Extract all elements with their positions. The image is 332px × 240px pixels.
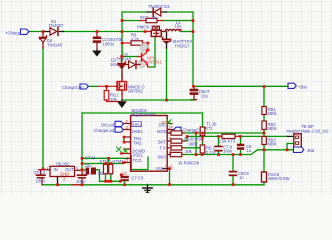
- wire header pin2: [287, 144, 294, 150]
- junction J2 at (97,32): [96, 30, 99, 33]
- svg-text:680k: 680k: [268, 141, 278, 146]
- capacitor CTM polarized: [86, 168, 89, 175]
- junction J7 at (148,50): [147, 49, 150, 52]
- ground at IC bottom: [147, 185, 149, 192]
- wire +Bat y=86.3: [194, 85, 289, 87]
- wire top loop y=12: [122, 11, 193, 13]
- junction J49 at (106,164): [104, 162, 107, 165]
- svg-text:T 9: T 9: [160, 146, 167, 151]
- IC bottom pin VSS: [163, 168, 170, 170]
- junction J47 at (58,185): [56, 183, 59, 186]
- IC left pin DSEL: [124, 129, 131, 131]
- svg-text:VSS: VSS: [156, 166, 165, 171]
- wire TCO y=158.3: [82, 157, 128, 159]
- junction J42 at (121,181): [119, 180, 122, 183]
- svg-text:HR1: HR1: [133, 122, 142, 127]
- IC right pin MOD 14: [167, 129, 173, 131]
- ground under NMOS: [121, 100, 123, 102]
- diode D3: [147, 11, 167, 13]
- svg-text:10u: 10u: [85, 163, 93, 168]
- svg-text:C7 C3: C7 C3: [132, 176, 145, 181]
- svg-text:1n: 1n: [239, 175, 244, 180]
- resistor RTM1: [104, 165, 108, 174]
- wire KTM tops tie W3: [82, 163, 124, 165]
- resistor RB3: [262, 137, 266, 145]
- resistor row B 360k: [171, 139, 182, 143]
- wire RB chain x=264: [263, 86, 265, 150]
- junction J27 at (187,136): [186, 135, 189, 138]
- IC left pin TM1: [124, 136, 131, 138]
- connector TB header: [287, 135, 294, 137]
- ghost marker B: [137, 59, 146, 68]
- svg-text:1000u: 1000u: [103, 42, 115, 47]
- svg-text:11: 11: [125, 158, 130, 163]
- svg-text:20k: 20k: [185, 149, 193, 154]
- junction J12 at (194,86): [192, 85, 195, 88]
- port ChargeCon: [80, 84, 88, 89]
- junction J16 at (82,158): [81, 157, 84, 160]
- junction J14 at (167,100): [165, 99, 168, 102]
- wire regulator feed x=43: [42, 48, 44, 169]
- wire C8 x=240.5: [240, 136, 242, 154]
- wire row C to R52: [184, 147, 201, 149]
- regulator GND stub: [57, 177, 59, 185]
- junction J36 at (287,150): [286, 149, 289, 152]
- svg-text:10u: 10u: [201, 93, 209, 98]
- wire main +charge rail y=31.5: [29, 31, 146, 33]
- ground under CC04: [96, 49, 98, 52]
- svg-text:RC2: RC2: [140, 15, 149, 20]
- capacitor C2: [121, 176, 129, 178]
- wire vertical bus x=122: [121, 12, 123, 61]
- junction J20 at (122,154): [120, 152, 123, 155]
- capacitor CBAT: [190, 89, 199, 92]
- svg-text:ChargeCon: ChargeCon: [62, 85, 84, 90]
- wire NPN base y=56.5: [122, 56, 138, 58]
- IC left pin DCMD: [124, 148, 131, 150]
- no-connect X on DCMD: [117, 147, 122, 152]
- junction J9 at (122,43): [121, 42, 124, 45]
- junction J33 at (233,155): [232, 153, 235, 156]
- svg-text:680k: 680k: [268, 111, 278, 116]
- diode D5: [122, 64, 140, 66]
- wire C7 x=218.5: [218, 136, 220, 154]
- svg-text:TCO: TCO: [133, 158, 143, 163]
- svg-text:CT M: CT M: [85, 155, 96, 160]
- junction J30 at (202,155): [201, 153, 204, 156]
- wire under-IC U shape: [131, 156, 148, 170]
- diode D2 zener 16V: [118, 62, 126, 65]
- wire schottky to ground x=166.5: [166, 48, 168, 100]
- junction J31 at (196,155): [195, 153, 198, 156]
- wire ground run y=100: [122, 99, 194, 101]
- svg-text:10k: 10k: [98, 171, 106, 176]
- junction J41 at (125,185): [123, 183, 126, 186]
- wire C9 x=233: [232, 155, 234, 185]
- svg-text:RT1: RT1: [205, 126, 214, 131]
- capacitor CC04 1000u: [96, 32, 98, 37]
- transistor Q3 NMOS: [116, 83, 122, 90]
- ghost marker A: [140, 43, 150, 53]
- svg-text:680k: 680k: [268, 126, 278, 131]
- svg-text:+Charge: +Charge: [5, 30, 22, 35]
- wire vss x=169.5: [169, 169, 171, 185]
- junction J38 at (106,181): [104, 180, 107, 183]
- svg-text:-Bat: -Bat: [307, 148, 316, 153]
- svg-text:Header.Male.2.Sil_1x2: Header.Male.2.Sil_1x2: [287, 129, 330, 134]
- svg-text:TN5817: TN5817: [175, 43, 191, 48]
- wire thermistor W_B y=136.4: [187, 135, 287, 137]
- svg-text:IN: IN: [54, 167, 58, 172]
- wire KTM bottoms W5: [100, 174, 121, 182]
- junction J5 at (145,32): [144, 30, 147, 33]
- port +Charge: [21, 29, 29, 34]
- capacitor CF2: [81, 170, 83, 174]
- no-connect X on DIS: [167, 120, 171, 124]
- svg-text:13: 13: [122, 171, 127, 176]
- junction J1 at (43,32): [42, 30, 45, 33]
- junction J48 at (109,158): [107, 157, 110, 160]
- port ChargeLed: [115, 127, 123, 132]
- capacitor C9: [230, 171, 237, 173]
- IC right pin SNS 8: [167, 154, 170, 156]
- resistor RG1: [106, 86, 108, 90]
- svg-text:OKLed: OKLed: [101, 122, 115, 127]
- IC left pin TM2: [124, 141, 131, 143]
- IC right pin CC row: [167, 132, 171, 134]
- junction J37 at (233,185): [232, 183, 235, 186]
- svg-text:380m/0.5W: 380m/0.5W: [268, 176, 289, 181]
- svg-text:+Bat: +Bat: [298, 84, 308, 89]
- junction J43 at (82,170): [81, 168, 84, 171]
- wire x=196 branch: [195, 133, 197, 155]
- wire vertical bus x=193: [192, 12, 194, 86]
- junction J29 at (264,133): [263, 132, 266, 135]
- svg-text:2N5551: 2N5551: [147, 60, 162, 65]
- svg-text:1u: 1u: [247, 148, 252, 153]
- wire R52 leads x=202.5: [202, 141, 204, 155]
- wire vcc frame y=113: [82, 112, 203, 114]
- resistor R52: [200, 145, 205, 153]
- regulator OUT lead: [75, 169, 83, 171]
- svg-text:SNS: SNS: [158, 155, 167, 160]
- svg-text:TN4007: TN4007: [49, 23, 65, 28]
- resistor RC2: [140, 20, 163, 22]
- junction J39 at (109,181): [107, 180, 110, 183]
- junction J44 at (82,164): [81, 162, 84, 165]
- thermistor RT1: [200, 127, 205, 136]
- svg-text:2.2k KT3: 2.2k KT3: [219, 138, 236, 143]
- junction J34 at (241,155): [239, 153, 242, 156]
- wire ChargeCon y=86.3: [89, 85, 99, 87]
- wire cap C2 bottom: [124, 181, 126, 185]
- svg-text:10k: 10k: [110, 97, 118, 102]
- svg-text:1k R08C08: 1k R08C08: [178, 161, 200, 166]
- junction J50 at (111,164): [110, 162, 113, 165]
- svg-text:4.7k: 4.7k: [131, 37, 140, 42]
- IC right pin BAT 9: [167, 140, 171, 142]
- wire sns run y=154.5: [184, 150, 293, 155]
- junction J11 at (193,32): [192, 30, 195, 33]
- resistor RTM2: [109, 165, 113, 174]
- port OKLed: [115, 121, 123, 126]
- IC left pin LED1: [124, 123, 131, 125]
- junction J46 at (82,185): [81, 183, 84, 186]
- resistor R6: [131, 41, 143, 45]
- wire vcc frame x=82: [81, 113, 83, 170]
- port ChargeCmd at MOD: [174, 127, 181, 132]
- svg-text:100n: 100n: [36, 179, 46, 184]
- junction J8 at (148,43): [147, 42, 150, 45]
- transistor Q2 NPN: [141, 54, 143, 62]
- wire PMOS gate x=155: [149, 37, 155, 67]
- wire RSNS x=264: [263, 150, 265, 185]
- svg-text:TN4148: TN4148: [116, 57, 132, 62]
- port +Bat: [288, 83, 296, 88]
- junction J28 at (241,136): [239, 135, 242, 138]
- wire BAT tap W_A y=133: [183, 132, 265, 134]
- svg-text:BAT: BAT: [158, 140, 166, 145]
- wire L1 out: [181, 31, 193, 33]
- junction J32 at (219,155): [217, 153, 220, 156]
- wire row D lead red: [182, 154, 184, 156]
- wire R6 row y=43: [122, 43, 148, 50]
- junction J45 at (43,169): [42, 168, 45, 171]
- wire RT1 bottom lead: [202, 135, 204, 138]
- wire CBAT leads x=194: [193, 86, 195, 88]
- wire CTM connections: [82, 170, 100, 182]
- resistor row D: [170, 152, 182, 156]
- inductor L1: [165, 29, 181, 31]
- wire RC2 row y=20.5: [122, 20, 193, 22]
- resistor RSNS: [262, 172, 267, 182]
- resistor row C: [171, 146, 182, 150]
- transistor Q PMOS: [145, 31, 151, 33]
- svg-text:16V: 16V: [110, 62, 118, 67]
- junction J15 at (107,86): [105, 85, 108, 88]
- diode D6 schottky: [166, 32, 168, 39]
- junction J13 at (264,87): [263, 85, 266, 88]
- svg-text:ChargeLed: ChargeLed: [94, 128, 115, 133]
- port -Bat: [294, 147, 304, 152]
- svg-text:10u: 10u: [175, 24, 183, 29]
- svg-text:360k: 360k: [189, 142, 199, 147]
- IC right pin TS 7: [167, 147, 171, 149]
- junction J25 at (203,136): [201, 135, 204, 138]
- resistor R9D row A: [171, 131, 182, 135]
- wire resistor top leads: [106, 164, 111, 165]
- wire bottom rail y=184.5: [42, 184, 264, 186]
- junction J17 at (124,137): [123, 136, 126, 139]
- voltage regulator 78L05: [50, 166, 75, 176]
- diode D1: [43, 31, 64, 33]
- IC left pin stub 11: [123, 162, 131, 164]
- junction J4 at (122,32): [121, 30, 124, 33]
- diode D4 zener: [42, 32, 44, 37]
- svg-text:DSEL: DSEL: [132, 129, 144, 134]
- wire D2 to NMOS x=122: [121, 43, 123, 76]
- resistor 2.2k KT3: [219, 135, 241, 137]
- svg-text:VSEL: VSEL: [133, 153, 144, 158]
- svg-text:PMOS C: PMOS C: [137, 24, 154, 29]
- IC left pin TCO: [127, 157, 131, 159]
- junction J23 at (196,133): [195, 132, 198, 135]
- junction J35 at (264,150): [263, 149, 266, 152]
- svg-text:BQ2004SPN: BQ2004SPN: [132, 112, 156, 117]
- svg-text:TM2: TM2: [133, 141, 142, 146]
- svg-text:CF.C4: CF.C4: [34, 170, 46, 175]
- IC left pin VSEL: [122, 153, 131, 155]
- no-connect X2 at VSEL pin: [124, 149, 127, 152]
- resistor RB2: [262, 121, 266, 130]
- capacitor C7: [215, 145, 222, 147]
- junction J6 at (122,57): [120, 55, 123, 58]
- resistor RB1: [262, 107, 266, 115]
- svg-text:0.1%: 0.1%: [206, 150, 216, 155]
- svg-text:78L05C: 78L05C: [56, 161, 71, 166]
- junction J21 at (170,169): [168, 167, 171, 170]
- junction J51 at (121,175): [120, 174, 123, 177]
- junction J22 at (170,185): [168, 183, 171, 186]
- wire TM tie x=124: [123, 137, 125, 142]
- svg-text:2N7002: 2N7002: [128, 89, 143, 94]
- regulator IN lead: [39, 169, 51, 171]
- capacitor C8 polarized: [237, 144, 244, 147]
- IC right pin DIS 15: [167, 123, 172, 125]
- junction J24 at (203,133): [201, 132, 204, 135]
- wire KTM riser: [108, 158, 110, 163]
- junction J19 at (124,163): [122, 161, 125, 164]
- capacitor CF1: [40, 170, 42, 175]
- wire RT1 top x=202.5: [202, 113, 204, 127]
- junction J3 at (122,21): [121, 19, 124, 22]
- junction J40 at (111,181): [110, 180, 113, 183]
- svg-text:TN4007 D3: TN4007 D3: [148, 4, 170, 9]
- junction J26 at (219,136): [217, 135, 220, 138]
- svg-text:100n: 100n: [223, 149, 233, 154]
- svg-text:16: 16: [161, 120, 166, 125]
- wire row B corner to W_B: [184, 136, 187, 141]
- op-amp U1 BQ2004 IC body: [131, 116, 168, 172]
- svg-text:TN4148: TN4148: [47, 43, 63, 48]
- junction J18 at (124,142): [123, 141, 126, 144]
- svg-text:MOD: MOD: [157, 129, 167, 134]
- junction J10 at (193,21): [192, 19, 195, 22]
